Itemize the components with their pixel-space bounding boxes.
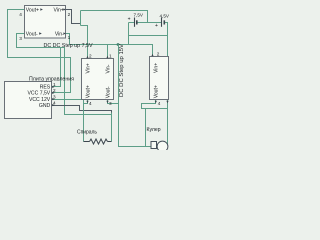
svg-text:Vin+: Vin+ [54,8,64,14]
wire battery link GB1 to GB2 [129,22,135,24]
control board box [5,82,52,119]
svg-text:Плита управления: Плита управления [29,76,74,82]
wire Vout+ U2 to coil left vertical [84,100,88,104]
svg-text:Vin-: Vin- [105,64,111,73]
wire coil right vertical [111,113,113,142]
wire VCC 12V of control board to coil left [52,100,84,142]
wire battery GB2 negative to right drop [165,23,168,36]
svg-text:DC DC Step up 7,5V: DC DC Step up 7,5V [44,43,93,49]
wire node A down to cooler [119,45,152,147]
svg-text:DC DC Step up 15V: DC DC Step up 15V [119,44,125,97]
wire to Vin+ of U2 [81,26,88,59]
svg-text:Vin+: Vin+ [85,63,91,73]
wire cooler jog vertical [145,109,147,147]
svg-text:1: 1 [68,35,71,40]
svg-text:Кулер: Кулер [147,127,161,133]
U3 pin 3 Vout- stub arrow [166,101,168,104]
svg-text:Vout-: Vout- [105,86,111,98]
svg-text:Vin+: Vin+ [153,63,159,73]
svg-text:+: + [128,16,131,22]
svg-text:4: 4 [19,12,22,17]
svg-text:Vout+: Vout+ [153,85,159,98]
wire net N2 Vout- of U1 to RES pin and down to coil area [17,34,112,115]
wire between batteries [138,22,162,24]
svg-text:2: 2 [157,52,160,57]
svg-text:Vout+: Vout+ [85,85,91,98]
svg-text:+: + [155,23,158,29]
resistor R spiral zigzag [90,139,108,144]
wire top run to battery GB1 [81,11,148,23]
svg-text:2: 2 [89,54,92,59]
wire down to Vin- of U3 [167,36,169,57]
svg-text:7,5V: 7,5V [134,13,144,18]
svg-text:GND: GND [39,103,51,109]
wire Vout+ U3 loop to cooler [142,100,168,109]
wire GND of control board to coil right [52,106,112,113]
svg-text:2: 2 [68,12,71,17]
svg-text:3: 3 [109,101,112,106]
converter U3 body [150,57,169,100]
svg-text:Vout-: Vout- [26,32,38,38]
wire Vin+ U1 jog [66,10,81,24]
converter U1 DC DC Step up 7,5V body [25,6,66,39]
wire 12V rail horizontal [108,45,153,57]
svg-text:Спираль: Спираль [77,129,97,135]
node A junction dot [117,43,120,46]
svg-text:1: 1 [109,54,112,59]
wire mid horizontal 35V rail [129,35,168,37]
motor M1 square terminal [151,142,157,149]
resistor R spiral leads [84,141,90,143]
wire Vout- U2 to cooler left vertical [108,100,119,104]
motor M1 circle [157,141,168,152]
svg-text:3: 3 [19,36,22,41]
converter U2 DC DC Step up 15V body [82,59,114,100]
svg-text:VCC 7,5V: VCC 7,5V [28,91,51,97]
wire Vin- U2 up to rail [107,45,109,59]
wire branch RES [52,48,61,87]
svg-text:Vin-: Vin- [55,32,64,38]
svg-text:4: 4 [89,101,92,106]
wire vertical at node B [80,11,82,26]
wire battery GB1 positive down to rail [128,23,130,45]
svg-text:4: 4 [158,101,161,106]
svg-text:Vout+: Vout+ [26,8,39,14]
wire net N1 Vout+ of U1 to VCC 7,5V of control board [8,10,71,93]
wire Vout- U3 down to motor [167,100,169,145]
wire Vin- U1 down to 12V rail [66,34,108,45]
